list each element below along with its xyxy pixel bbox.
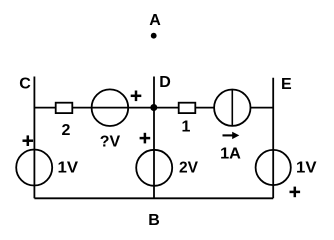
label 1 [182, 119, 191, 136]
node D label [159, 74, 171, 91]
junction dot at node D [150, 104, 157, 111]
wire: top bus from current source to E [250, 107, 273, 109]
wire: right vertical branch at node E [272, 78, 274, 199]
svg-text:2V: 2V [179, 160, 198, 177]
node B label [148, 212, 160, 229]
voltage source ?V [92, 89, 129, 126]
resistor 2 ohm [56, 103, 73, 113]
node C label [19, 76, 31, 93]
node A dot [151, 33, 157, 39]
svg-text:A: A [149, 12, 161, 29]
svg-text:E: E [281, 76, 292, 93]
voltage source 2V middle [136, 150, 172, 186]
polarity + of left 1V [23, 135, 34, 146]
resistor 1 ohm [179, 103, 196, 113]
wire: left vertical branch at node C [33, 77, 35, 199]
arrow: 1A current direction [223, 132, 240, 139]
label 1V left [58, 160, 79, 177]
svg-text:D: D [159, 74, 171, 91]
svg-text:C: C [19, 76, 31, 93]
polarity + of 2V [140, 133, 151, 144]
svg-text:1V: 1V [296, 160, 317, 177]
voltage source 1V left [16, 150, 52, 186]
svg-text:2: 2 [62, 122, 71, 139]
svg-text:1: 1 [182, 119, 191, 136]
svg-text:?V: ?V [100, 133, 121, 150]
label 1V right [296, 160, 317, 177]
label ?V [100, 133, 121, 150]
svg-text:1V: 1V [58, 160, 79, 177]
current source 1A [214, 90, 250, 126]
label 2 [62, 122, 71, 139]
wire: bottom bus at node B [34, 197, 273, 199]
node E label [281, 76, 292, 93]
voltage source 1V right [256, 150, 291, 185]
label 2V [179, 160, 198, 177]
polarity + of right 1V [290, 187, 301, 198]
svg-text:1A: 1A [220, 146, 241, 163]
svg-text:B: B [148, 212, 160, 229]
wire: top bus from C to current source [34, 107, 215, 109]
label 1A [220, 146, 241, 163]
node A label [149, 12, 161, 29]
polarity + of ?V [131, 91, 142, 102]
wire: middle vertical branch at node D [153, 77, 155, 199]
